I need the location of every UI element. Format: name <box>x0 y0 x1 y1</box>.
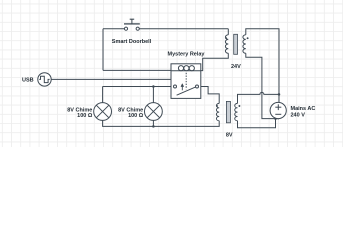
svg-text:8V: 8V <box>226 133 233 139</box>
svg-text:Mystery Relay: Mystery Relay <box>168 51 206 57</box>
svg-text:240 V: 240 V <box>291 112 306 118</box>
svg-text:Mains AC: Mains AC <box>291 106 316 112</box>
svg-text:Smart Doorbell: Smart Doorbell <box>112 39 152 45</box>
svg-text:100 Ω: 100 Ω <box>77 113 93 119</box>
svg-text:100 Ω: 100 Ω <box>128 113 144 119</box>
svg-text:24V: 24V <box>231 64 241 70</box>
svg-text:USB: USB <box>22 77 34 83</box>
